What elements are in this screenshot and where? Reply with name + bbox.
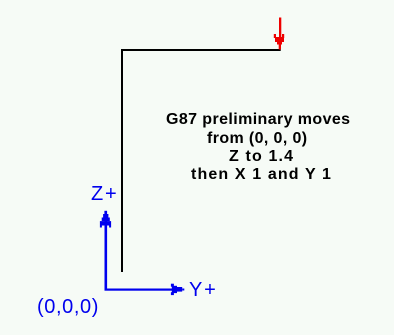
label: Z+ axis label (91, 184, 119, 204)
wire: tool path (vertical + horizontal black line) (122, 50, 281, 272)
arrow: red rapid-move down arrow into corner of tool path (274, 18, 284, 50)
label: center text line 3 "Z to 1.4" (229, 149, 294, 165)
label: center text line 1 "G87 preliminary moves" (166, 112, 351, 128)
label: origin (0,0,0) (37, 297, 99, 317)
label: center text line 4 "then X 1 and Y 1" (191, 167, 332, 183)
label: Y+ axis label (189, 280, 218, 300)
label: center text line 2 "from (0, 0, 0)" (207, 131, 307, 147)
arrow: Y+ axis (blue, pointing right) (105, 284, 185, 295)
arrow: Z+ axis (blue, pointing up) (100, 211, 111, 291)
